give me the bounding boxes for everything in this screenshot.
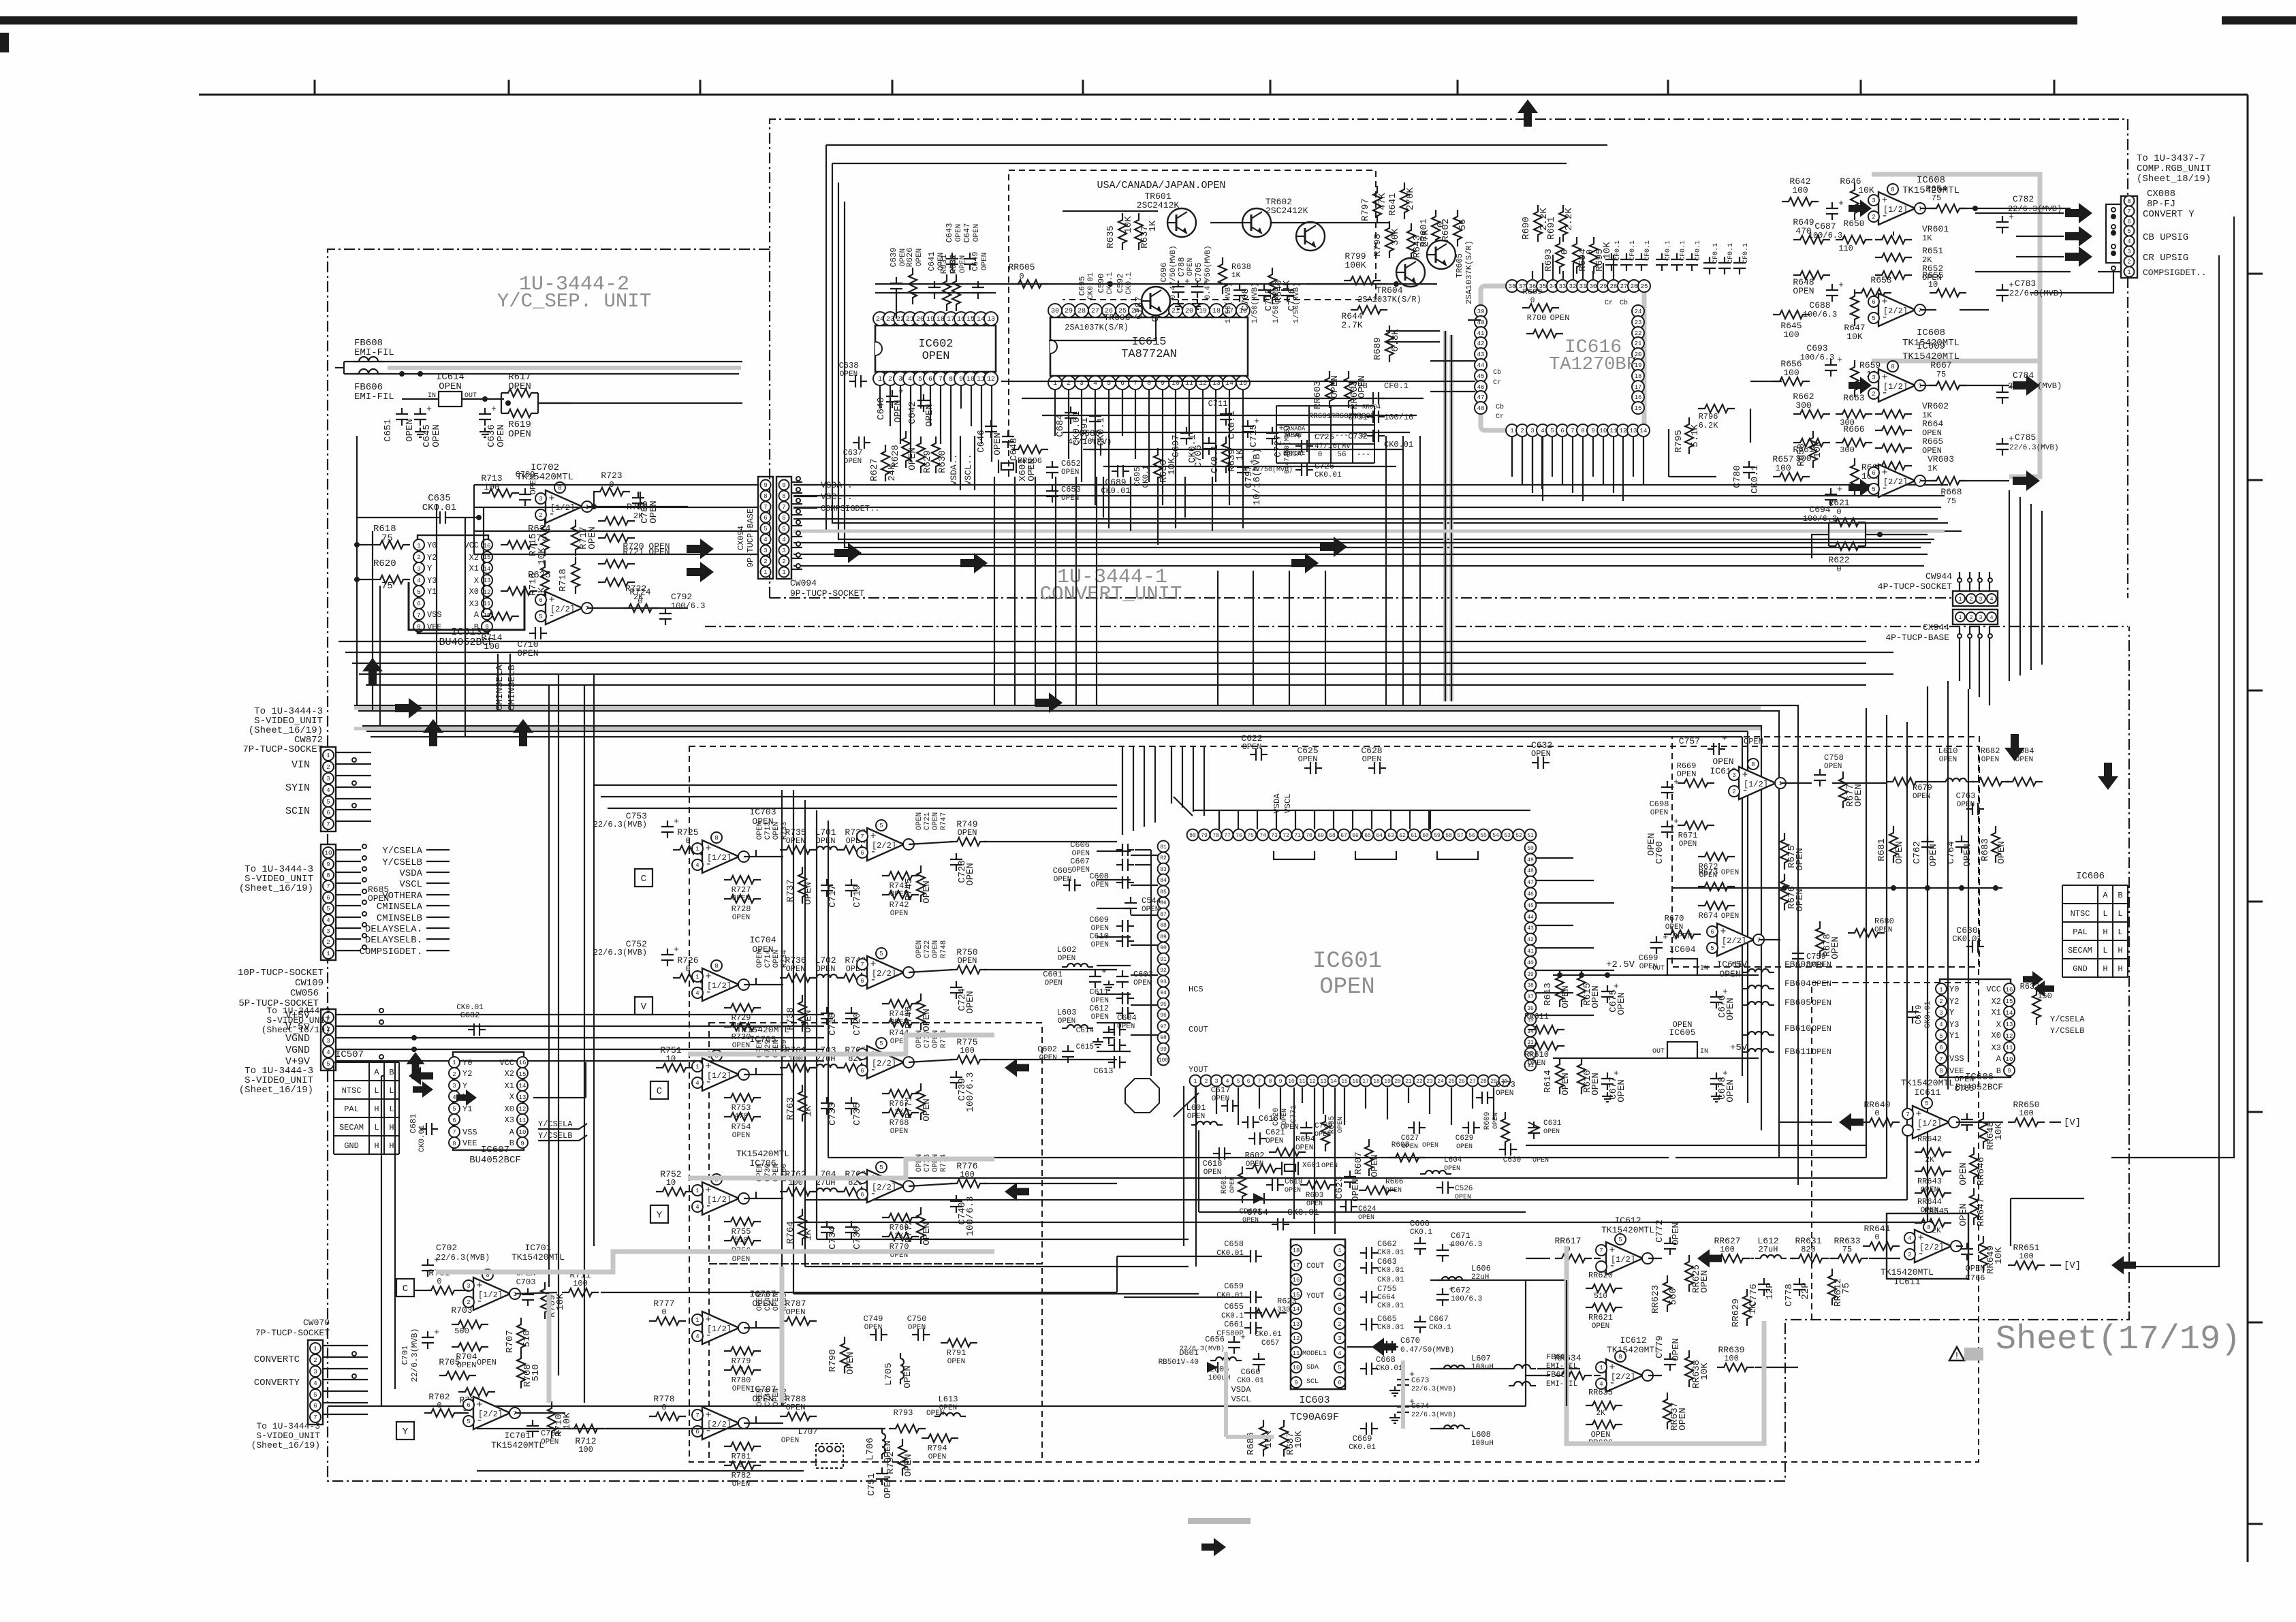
resistor R693 0	[1543, 237, 1571, 274]
inductor series IC703	[811, 827, 843, 850]
svg-text:4P-TUCP-SOCKET: 4P-TUCP-SOCKET	[1878, 582, 1952, 592]
resistor R686 10K	[1246, 1420, 1274, 1457]
wire ic601 leftcap lead	[1097, 1051, 1131, 1052]
capacitor C698 OPEN	[1650, 777, 1680, 817]
wire ic611 feed	[1779, 1122, 2061, 1265]
resistor RR646 OPEN	[1958, 1147, 1987, 1186]
svg-text:[V]: [V]	[2064, 1260, 2081, 1271]
wire ic616 pin riser	[1582, 255, 1584, 279]
label TK15420MTL IC611	[1901, 1078, 1954, 1098]
svg-text:20: 20	[1394, 1079, 1401, 1085]
svg-text:3: 3	[1979, 615, 1983, 621]
net flag Y/CSELA b	[2050, 1015, 2085, 1024]
svg-text:10: 10	[2006, 1056, 2013, 1063]
svg-text:OPEN: OPEN	[786, 1307, 806, 1317]
label C649 OPEN	[971, 252, 989, 272]
capacitor C636 OPEN	[479, 404, 507, 447]
resistor R654 75	[1925, 184, 1966, 212]
svg-text:8: 8	[326, 872, 330, 879]
wire ic601 right tap	[1536, 902, 1614, 904]
capacitor C635 CK0.01	[422, 493, 456, 524]
net VSDA vertical	[949, 436, 960, 490]
capacitor C637 OPEN	[843, 436, 870, 466]
svg-text:0: 0	[1318, 451, 1323, 459]
arrow signal right	[687, 539, 714, 559]
wire top rail gray	[388, 366, 741, 370]
svg-text:C758: C758	[1824, 753, 1844, 763]
power label V-5v	[285, 1020, 824, 1033]
svg-text:NTSC: NTSC	[2071, 909, 2090, 919]
wire cx088 feeds	[1975, 213, 2121, 272]
svg-text:(Sheet_16/19): (Sheet_16/19)	[239, 883, 313, 894]
svg-text:OPEN: OPEN	[1039, 1054, 1057, 1062]
svg-text:C651: C651	[383, 419, 394, 442]
resistor R601 OPEN	[1221, 1166, 1246, 1203]
capacitor C710 OPEN	[517, 627, 547, 658]
svg-text:CMINSELA: CMINSELA	[494, 665, 505, 711]
svg-text:OPEN: OPEN	[772, 1293, 781, 1311]
svg-text:7: 7	[860, 833, 864, 840]
svg-text:OPEN: OPEN	[1091, 941, 1109, 949]
svg-text:10: 10	[666, 1054, 676, 1064]
svg-text:OPEN: OPEN	[786, 964, 806, 974]
svg-text:99: 99	[1160, 1047, 1167, 1053]
svg-text:2: 2	[1908, 1252, 1911, 1258]
arrow row IC706	[1005, 1183, 1029, 1201]
wire FB left	[335, 362, 344, 374]
capacitor C783 22/6.3(MVB)	[1996, 279, 2063, 302]
wire ic601 left tap	[1131, 885, 1158, 886]
arrow mid right	[1035, 693, 1063, 713]
svg-text:7: 7	[1939, 1056, 1943, 1063]
svg-text:10: 10	[1928, 280, 1938, 289]
arrow up1	[362, 658, 383, 685]
IC IC616 TA1270BF	[1475, 280, 1650, 436]
svg-text:C674: C674	[1411, 1403, 1430, 1411]
svg-text:CK0.01: CK0.01	[1315, 471, 1342, 479]
svg-text:6: 6	[860, 1068, 864, 1075]
svg-text:TC90A69F: TC90A69F	[1290, 1412, 1339, 1423]
wire cw070 up	[381, 1062, 395, 1406]
capacitor C769 OPEN	[1300, 1122, 1332, 1139]
svg-text:SCIN: SCIN	[285, 806, 310, 817]
svg-text:27: 27	[1620, 283, 1628, 290]
svg-text:10K: 10K	[1858, 185, 1874, 195]
wire row IC704	[744, 978, 868, 985]
svg-text:1: 1	[1959, 615, 1962, 621]
arrow bus b	[960, 553, 988, 573]
svg-text:OPEN: OPEN	[405, 419, 415, 442]
svg-text:28: 28	[1078, 308, 1086, 315]
highlight trunk bottom	[549, 1267, 782, 1403]
svg-text:+: +	[674, 944, 679, 955]
svg-text:R674: R674	[1699, 911, 1718, 921]
wire convert bus	[793, 565, 1924, 567]
svg-text:OPEN: OPEN	[1712, 757, 1733, 767]
resistor feedback IC707a	[724, 1347, 761, 1374]
resistor R614 OPEN	[1543, 1058, 1571, 1096]
svg-text:1: 1	[695, 974, 699, 981]
resistor RR648 10K	[1979, 1112, 2004, 1150]
svg-text:2: 2	[1520, 428, 1524, 434]
svg-text:R794: R794	[928, 1444, 947, 1453]
svg-text:10: 10	[1293, 1365, 1300, 1371]
resistor R644 2.7K	[1341, 306, 1387, 330]
svg-text:2: 2	[764, 558, 767, 565]
svg-text:100: 100	[2019, 1109, 2034, 1118]
op-amp IC612 [2/2]	[1596, 1351, 1653, 1392]
pin label YOUT	[1306, 1292, 1325, 1301]
resistor R617 OPEN	[501, 372, 538, 397]
svg-text:[2/2]: [2/2]	[872, 969, 896, 979]
resistor feedback b IC703	[724, 895, 761, 922]
svg-text:75: 75	[1947, 496, 1956, 506]
label VSDA..	[793, 480, 853, 490]
wire ic616 pin drop	[1511, 437, 1513, 477]
resistor feedback d IC705	[882, 1109, 919, 1136]
svg-text:OPEN: OPEN	[864, 1324, 882, 1332]
svg-text:C773: C773	[1496, 1080, 1515, 1090]
svg-text:100: 100	[1720, 1245, 1735, 1254]
wire conv drop	[1014, 477, 1016, 705]
svg-text:R782: R782	[732, 1471, 751, 1480]
svg-text:C755: C755	[1377, 1284, 1397, 1294]
svg-text:17: 17	[1635, 384, 1642, 391]
svg-text:6: 6	[313, 1403, 317, 1410]
capacitor C691 CK0.1	[1080, 410, 1107, 446]
highlight row IC705	[688, 1035, 994, 1054]
svg-text:1: 1	[1194, 1079, 1197, 1085]
svg-text:12: 12	[1620, 428, 1627, 434]
wire pin group bracket	[1437, 851, 1478, 859]
capacitor C787 OPEN	[1134, 291, 1161, 322]
svg-text:3: 3	[417, 566, 420, 573]
svg-text:26: 26	[1631, 283, 1638, 290]
warning triangle	[1949, 1347, 1964, 1362]
wire drop to IC601	[1133, 746, 1134, 831]
arrow IC611 in	[1839, 1113, 1863, 1132]
resistor out IC705	[950, 1037, 987, 1064]
svg-text:OPEN: OPEN	[1265, 1137, 1283, 1145]
resistor feedback d IC706	[882, 1233, 919, 1260]
label To 1U-3444-3 (top)	[262, 1006, 331, 1035]
svg-text:C746: C746	[764, 1388, 772, 1406]
wire loop bottom	[817, 1239, 1189, 1240]
resistor R606 OPEN	[1359, 1178, 1403, 1194]
svg-text:0: 0	[1028, 466, 1033, 474]
svg-text:15: 15	[484, 554, 491, 561]
svg-text:61: 61	[1411, 833, 1417, 839]
svg-text:R781: R781	[732, 1452, 751, 1461]
svg-text:RR642: RR642	[1917, 1134, 1942, 1144]
svg-text:RR644: RR644	[1917, 1197, 1942, 1207]
svg-text:560: 560	[1668, 1288, 1679, 1305]
wire loop vertical right	[793, 686, 1928, 1222]
svg-text:6: 6	[539, 597, 542, 604]
inductor L605 100uH	[1208, 1357, 1242, 1382]
label +2.5V	[1606, 959, 1635, 970]
svg-text:5: 5	[313, 1392, 317, 1399]
svg-text:FB610: FB610	[1784, 1023, 1811, 1034]
svg-text:1: 1	[2127, 269, 2130, 276]
svg-text:VR603: VR603	[1928, 454, 1954, 464]
resistor RR637 OPEN	[1663, 1393, 1688, 1431]
svg-text:(Sheet_16/19): (Sheet_16/19)	[251, 1440, 320, 1450]
svg-text:CK0.01: CK0.01	[1377, 1267, 1404, 1275]
label CX944 4P-TUCP-BASE	[1885, 622, 1949, 643]
svg-text:100/6.3: 100/6.3	[1451, 1295, 1482, 1303]
capacitor C652 OPEN	[1046, 459, 1081, 479]
resistor R676 OPEN	[1780, 874, 1806, 912]
net flag Y/CSELB b	[2050, 1026, 2084, 1036]
svg-text:C783: C783	[2015, 279, 2036, 289]
label +5V b	[1730, 1043, 1748, 1053]
svg-text:52: 52	[1515, 833, 1522, 839]
capacitor C658 CK0.01	[1216, 1239, 1262, 1262]
resistor RR650 100	[2008, 1100, 2045, 1126]
svg-text:8: 8	[2127, 198, 2130, 205]
resistor R725 0	[673, 827, 710, 854]
svg-text:22/6.3(MVB): 22/6.3(MVB)	[410, 1328, 420, 1382]
svg-text:C614: C614	[1076, 1027, 1095, 1035]
wire cx088 pin taps	[2111, 208, 2116, 270]
ferrite FB611 OPEN	[1743, 1047, 1831, 1057]
inductor L612 27uH	[1755, 1236, 1787, 1258]
svg-text:6: 6	[1710, 929, 1714, 936]
svg-text:+: +	[1837, 355, 1842, 365]
wire CW872 pin	[336, 781, 371, 787]
wire R617 loop	[501, 393, 572, 413]
resistor feedback a IC705	[724, 1094, 761, 1121]
svg-text:5: 5	[918, 376, 922, 383]
svg-text:R658: R658	[1796, 443, 1807, 466]
svg-text:OPEN: OPEN	[1422, 1142, 1438, 1149]
wire ic602 pin drop	[879, 385, 881, 409]
svg-text:C764: C764	[1946, 841, 1957, 864]
wire ic601 leftcap lead	[1097, 993, 1131, 995]
svg-text:3: 3	[1215, 1079, 1218, 1085]
resistor R633 150	[2020, 982, 2052, 1025]
svg-text:H: H	[389, 1123, 394, 1132]
svg-text:C665: C665	[1377, 1314, 1397, 1324]
svg-text:C656: C656	[1205, 1335, 1225, 1344]
svg-text:R651: R651	[1922, 246, 1943, 256]
inductor L602 OPEN	[1057, 945, 1093, 967]
resistor RR605 0	[1008, 262, 1048, 288]
arrow up2	[423, 719, 443, 746]
top header bar right segment	[2222, 16, 2296, 25]
svg-text:C670: C670	[1400, 1336, 1420, 1346]
crystal X602 OPEN	[998, 458, 1037, 481]
svg-text:8: 8	[1927, 1224, 1930, 1231]
svg-text:11: 11	[2006, 1045, 2013, 1051]
wire ic616 pin riser	[1542, 263, 1543, 279]
wire 2.5V rail	[1553, 972, 1759, 978]
svg-text:23: 23	[1426, 1079, 1433, 1085]
resistor R619 OPEN	[501, 409, 538, 440]
svg-text:OPEN: OPEN	[1793, 286, 1814, 296]
svg-text:OPEN: OPEN	[1874, 926, 1892, 934]
wire ic612 links	[1594, 1258, 1900, 1259]
svg-text:270K: 270K	[1405, 187, 1416, 210]
svg-text:VIN: VIN	[292, 759, 310, 771]
svg-text:SYIN: SYIN	[285, 782, 310, 794]
wire ic612 feed	[1526, 1258, 1550, 1375]
svg-text:L602: L602	[1057, 945, 1077, 955]
svg-text:OPEN: OPEN	[928, 1453, 946, 1461]
resistor series IC707	[780, 1394, 817, 1420]
connector CW109 10P-TUCP-SOCKET	[321, 844, 336, 960]
label cluster verticals IC704	[756, 949, 789, 968]
svg-text:[1/2]: [1/2]	[1611, 1255, 1635, 1265]
resistor feedback b IC705	[724, 1113, 761, 1140]
svg-text:C772: C772	[1654, 1220, 1665, 1243]
svg-text:6: 6	[782, 515, 785, 522]
svg-text:OPEN: OPEN	[1281, 1109, 1289, 1125]
arrow down right area	[2098, 763, 2118, 790]
label OPEN C703	[516, 1269, 536, 1287]
svg-text:5: 5	[326, 906, 330, 912]
net label CMINSELA	[336, 900, 450, 912]
svg-text:5: 5	[879, 823, 883, 829]
highlight ic612 gray	[1567, 1246, 1764, 1444]
label cluster verticals IC705	[756, 1040, 789, 1058]
connector CW944 4P-TUCP-SOCKET	[1953, 591, 1998, 606]
svg-text:OPEN: OPEN	[1795, 889, 1806, 912]
svg-text:H: H	[374, 1141, 379, 1151]
svg-text:VR602: VR602	[1922, 401, 1949, 411]
svg-text:OPEN: OPEN	[1091, 881, 1109, 889]
wire convert-unit rail	[845, 202, 1921, 547]
svg-text:OPEN: OPEN	[732, 1385, 750, 1393]
wire right bundle	[2019, 497, 2021, 675]
svg-text:TK15420MTL: TK15420MTL	[512, 1252, 565, 1262]
svg-text:2: 2	[417, 554, 420, 561]
svg-text:[2/2]: [2/2]	[1883, 306, 1908, 316]
capacitor C659 CK0.01	[1216, 1282, 1262, 1303]
svg-text:CR UPSIG: CR UPSIG	[2143, 253, 2188, 264]
svg-text:13: 13	[987, 316, 995, 323]
wire top rail	[344, 362, 742, 374]
wire ic601 top feed	[1352, 810, 1353, 829]
capacitor C757 OPEN	[1679, 733, 1763, 755]
resistor RR636 OPEN	[1586, 1420, 1622, 1448]
svg-text:74: 74	[1259, 833, 1266, 839]
svg-text:C709: C709	[516, 470, 535, 479]
svg-text:59: 59	[1434, 833, 1441, 839]
resistor RR642 2K	[1915, 1134, 1951, 1164]
svg-text:Y: Y	[1949, 1008, 1954, 1017]
inductor L606 22uH	[1436, 1264, 1491, 1282]
net flag CMINSELB	[507, 654, 518, 712]
svg-text:OPEN: OPEN	[1830, 936, 1841, 959]
wire ic616 pin drop	[1522, 437, 1523, 485]
svg-text:C679: C679	[1914, 1005, 1923, 1025]
svg-text:8P-FJ: 8P-FJ	[2147, 199, 2175, 210]
wire ic601 left tap	[1131, 1034, 1158, 1036]
wire row IC707	[744, 1416, 783, 1423]
svg-text:X3: X3	[505, 1115, 514, 1125]
svg-text:45: 45	[1477, 373, 1485, 380]
wire ic615 pin drop	[1054, 389, 1056, 436]
label C641 OPEN	[927, 252, 945, 272]
svg-text:100: 100	[1724, 1354, 1739, 1363]
wire ic612 links2	[1594, 1367, 1798, 1375]
svg-text:65: 65	[1364, 833, 1371, 839]
wire ic601 right tap	[1536, 947, 1594, 949]
resistor R799 100K	[1344, 251, 1381, 285]
svg-text:R664: R664	[1922, 419, 1943, 429]
label CX088 8P-FJ	[2147, 189, 2175, 210]
svg-text:11: 11	[1610, 428, 1618, 434]
svg-text:R683: R683	[1980, 838, 1991, 861]
svg-text:100: 100	[578, 1445, 593, 1454]
wire ic602 top rail	[875, 293, 996, 319]
wire bus band	[366, 731, 1748, 732]
resistor R675 OPEN	[1780, 833, 1806, 871]
capacitor C697 CK0.1	[1171, 427, 1198, 463]
svg-text:16: 16	[1352, 1079, 1359, 1085]
svg-text:VSCL: VSCL	[399, 879, 422, 890]
svg-text:28: 28	[1480, 1079, 1487, 1085]
svg-text:C604: C604	[1117, 1013, 1137, 1023]
svg-text:75: 75	[1842, 1245, 1852, 1254]
capacitor C623 OPEN	[1334, 1171, 1362, 1202]
label +5V	[1730, 959, 1748, 970]
svg-text:OPEN: OPEN	[1045, 979, 1063, 987]
svg-text:HCS: HCS	[1189, 985, 1204, 994]
svg-text:C653: C653	[1061, 485, 1081, 494]
capacitor C648 OPEN	[1002, 430, 1020, 461]
inductor L604 OPEN	[1420, 1156, 1462, 1174]
wire bus band gray highlight	[354, 708, 1761, 729]
capacitor out IC703	[950, 853, 976, 886]
unit label CONVERT_UNIT	[1040, 583, 1182, 605]
inductor L601 OPEN	[1186, 1103, 1223, 1125]
capacitor C772 OPEN	[1654, 1220, 1682, 1255]
capacitor C614 OPEN	[1076, 1023, 1126, 1036]
resistor R605 OPEN	[1321, 1115, 1344, 1151]
wire ic601 top feed	[1428, 810, 1430, 829]
svg-text:1: 1	[313, 1346, 317, 1352]
svg-text:R768: R768	[890, 1118, 909, 1128]
label CW944 4P-TUCP-SOCKET	[1878, 571, 1952, 592]
resistor R709 10K	[541, 1282, 566, 1319]
svg-text:3: 3	[1338, 1277, 1341, 1284]
resistor feedback IC707a	[724, 1442, 761, 1469]
svg-text:(Sheet_18/19): (Sheet_18/19)	[2137, 174, 2211, 185]
capacitor C670 0.47/50	[1381, 1336, 1454, 1354]
svg-text:46: 46	[1477, 384, 1485, 391]
svg-text:4P-TUCP-BASE: 4P-TUCP-BASE	[1885, 633, 1949, 643]
resistor series2 IC705	[837, 1045, 874, 1072]
svg-text:40: 40	[1527, 960, 1534, 966]
wire CW944 drop	[1989, 572, 1990, 705]
resistor RR620 510	[1586, 1271, 1622, 1301]
wire bottom cluster rail	[1199, 1130, 1526, 1212]
svg-text:NTSC: NTSC	[342, 1086, 362, 1096]
resistor RR612 75	[1828, 1269, 1852, 1307]
svg-text:R705: R705	[439, 1357, 460, 1367]
wire ic601 right tap	[1536, 970, 1614, 971]
capacitor C709 OPEN	[516, 470, 538, 506]
potentiometer VR603 1K	[1875, 454, 1954, 473]
resistor R687 10K	[1280, 1420, 1304, 1457]
resistor R719 2K	[598, 502, 648, 525]
label To 1U-3444-3 S-VIDEO_UNIT CW872	[242, 706, 323, 755]
svg-text:C721: C721	[924, 812, 932, 830]
svg-text:CX944: CX944	[1923, 622, 1949, 633]
